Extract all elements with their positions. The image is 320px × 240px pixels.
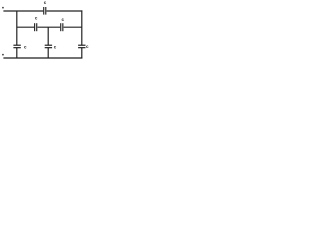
wire row2 segment 2 [38,26,61,28]
capacitor C2 plates [35,23,37,31]
svg-text:c: c [35,16,38,21]
terminal tick top-left [2,7,4,8]
wire bottom rail [3,57,82,59]
wire right rail upper [81,10,83,45]
wire row2 segment 3 [64,26,82,28]
wire middle rail lower [47,48,49,59]
wire top rail left segment [3,10,43,12]
wire right rail lower [81,48,83,59]
capacitor C3 plates [61,23,63,31]
capacitor C5 plates [45,45,52,48]
wire top rail right segment [47,10,83,12]
svg-text:c: c [44,0,47,5]
svg-text:c: c [54,45,57,50]
wire middle rail upper [47,27,49,45]
capacitor C6 plates [78,45,85,48]
terminal tick bottom-left [2,54,4,56]
svg-text:c: c [24,45,27,50]
capacitor C1 plates [44,7,46,15]
svg-text:c: c [62,17,65,22]
svg-text:c: c [86,44,89,49]
capacitor C4 plates [13,45,20,48]
wire row2 segment 1 [17,26,34,28]
wire left rail upper [16,11,18,45]
wire left rail lower [16,48,18,59]
